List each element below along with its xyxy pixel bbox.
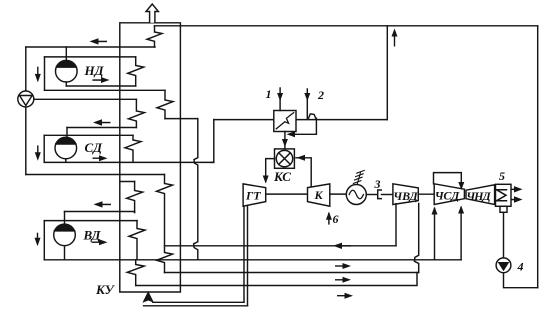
wire drum VD bottom stub [64, 246, 66, 260]
wire V213 riser to SD loop line [211, 120, 214, 163]
wire air from compressor to KS with left arrow [296, 155, 311, 187]
wire V197 from HC2 down with jog over L1 [194, 119, 198, 260]
arrow left annotation SD [93, 119, 111, 125]
heating surface C (condensate heater GPK) [157, 90, 173, 118]
wire L3 from duct wall to V418 [165, 272, 419, 274]
heating surface F (VD superheater) [127, 182, 143, 213]
wire sub line 2 to burner feed [291, 118, 316, 134]
wire top steam line to right edge [155, 25, 538, 27]
wire HC2b box line from V213 [214, 119, 387, 121]
svg-text:5: 5 [499, 169, 505, 183]
svg-text:1: 1 [266, 87, 272, 101]
svg-text:НД: НД [84, 63, 105, 78]
heating surface D (SD economizer) [128, 99, 144, 127]
wire HD1 feedwater line from pump [34, 98, 137, 100]
arrow down annotation ND downcomer [35, 67, 41, 83]
wire L1 reheat line with left arrow [165, 243, 397, 249]
svg-text:ЧНД: ЧНД [466, 189, 491, 203]
svg-text:КУ: КУ [95, 282, 116, 297]
shaft ChVD-ChSD [418, 193, 434, 195]
svg-text:К: К [314, 188, 324, 202]
compressor K [308, 184, 330, 206]
arrow right annotation VD [91, 239, 107, 245]
arrow left annotation ND [90, 38, 108, 44]
wire right edge down [537, 26, 539, 288]
arrow right annotation SD [93, 155, 108, 161]
wire HF2 VD steam line from drum riser [65, 212, 135, 213]
wire line 2 with down arrow [304, 89, 310, 118]
wire ND loop left [44, 57, 46, 90]
wire V434 up into ChSD with arrow [432, 207, 438, 260]
wire drum ND riser [65, 47, 67, 60]
shaft generator-coupling [366, 194, 377, 196]
wire HA pump riser to A [26, 46, 155, 48]
wire condensate to pump 4 [503, 212, 505, 258]
wire HE1 SD loop top [44, 134, 133, 136]
arrow right annotation L3 [335, 277, 351, 283]
svg-text:КС: КС [273, 169, 291, 184]
shaft GT-K [266, 193, 308, 195]
wire air inlet 6 arrow up [326, 212, 332, 224]
svg-text:6: 6 [333, 212, 339, 226]
wire HB1 ND loop top [45, 56, 136, 58]
gas heater box item 1-2 [274, 111, 296, 132]
generator G1 [346, 185, 366, 205]
arrow right annotation L2 [335, 263, 351, 269]
wire box to KS connector with down arrow [282, 132, 288, 149]
condenser item 5 [496, 184, 512, 206]
svg-text:СД: СД [85, 140, 104, 155]
pump P1 circulation [18, 91, 34, 107]
wire HF1 stub from wall [120, 181, 135, 183]
wire line 1 with down arrow [277, 88, 283, 111]
heating surface G (reheater tall) [157, 175, 173, 273]
svg-text:ЧВД: ЧВД [393, 189, 418, 203]
wire HE2 SD loop bottom to V197 [44, 161, 214, 163]
generator brush hatching [353, 170, 364, 184]
condenser pedestal [500, 206, 507, 212]
svg-text:4: 4 [517, 260, 524, 274]
wire drum SD riser [66, 128, 68, 138]
shaft K-generator [330, 193, 346, 195]
wire HC1 ND loop bottom [45, 89, 166, 91]
shaft coupling-ChVD [382, 194, 393, 196]
svg-text:ВД: ВД [83, 228, 102, 243]
drum SD [55, 137, 77, 159]
arrow down annotation SD downcomer [35, 145, 41, 160]
heating surface B (ND evaporator) [128, 57, 144, 86]
arrow up annotation near V387 [392, 29, 398, 47]
cooling water arrows [511, 186, 523, 203]
wire pump 4 discharge [504, 273, 538, 288]
wire drum SD bottom stub [65, 159, 67, 162]
combustion chamber KS [275, 149, 295, 168]
wire drum ND bottom stub [65, 82, 67, 86]
wire HD2 to SD drum riser [67, 127, 136, 129]
arrowhead left into connector [287, 131, 296, 137]
heating surface A (ND superheater) [147, 26, 162, 47]
HRSG duct KU walls [120, 23, 181, 292]
drum ND [56, 60, 78, 82]
wire condensate drop V387 [386, 26, 388, 120]
wire L4 bottom economizer line [136, 273, 417, 286]
wire pump riser up [25, 47, 27, 91]
wire HG1 from left outer line [26, 174, 165, 176]
drum VD [54, 224, 76, 246]
wire V418 staircase up with jog over L2 [414, 204, 418, 273]
arrow right annotation L4 [337, 293, 353, 299]
wire V461 up into neck [460, 208, 462, 260]
coupling item 3 [378, 190, 382, 199]
wire KS to GT with down arrow [263, 159, 275, 184]
heating surface E (SD evaporator) [125, 135, 141, 162]
jog on HC2 line [309, 114, 316, 118]
svg-text:3: 3 [374, 177, 381, 191]
wire L2 steam line to ChSD and neck [44, 259, 461, 261]
wire drum VD riser [64, 212, 66, 225]
steam turbine ChVD [393, 184, 418, 205]
arrow down annotation VD downcomer [35, 233, 41, 247]
arrow right annotation ND [92, 77, 109, 83]
wire VD loop left [43, 221, 45, 260]
wire V396 up to ChVD [395, 204, 397, 246]
svg-text:2: 2 [317, 88, 324, 102]
GT exhaust double duct down [244, 206, 248, 306]
arrowhead down into neck [458, 182, 464, 190]
heating surface H (VD evaporator) [129, 221, 145, 260]
wire pump down leg [25, 107, 27, 175]
svg-text:ЧСД: ЧСД [435, 189, 460, 203]
heating surface I (VD economizer bottom) [127, 260, 144, 286]
wire HH1 VD loop top [44, 220, 137, 222]
crossover bracket over ChSD [434, 173, 462, 186]
steam turbine ChND [466, 185, 495, 205]
gas turbine GT [243, 184, 266, 206]
stack hollow arrow [146, 4, 158, 23]
wire SD loop left [43, 135, 45, 162]
svg-text:ГТ: ГТ [245, 189, 261, 203]
wire HC2a condensate heater outlet to V197 [165, 118, 198, 120]
wire HB2 drum ND bottom line [66, 85, 135, 87]
pump 4 condensate [496, 258, 511, 273]
arrow left annotation VD [94, 201, 112, 207]
steam turbine ChSD [434, 184, 464, 205]
hollow arrow into duct bottom [142, 291, 247, 306]
